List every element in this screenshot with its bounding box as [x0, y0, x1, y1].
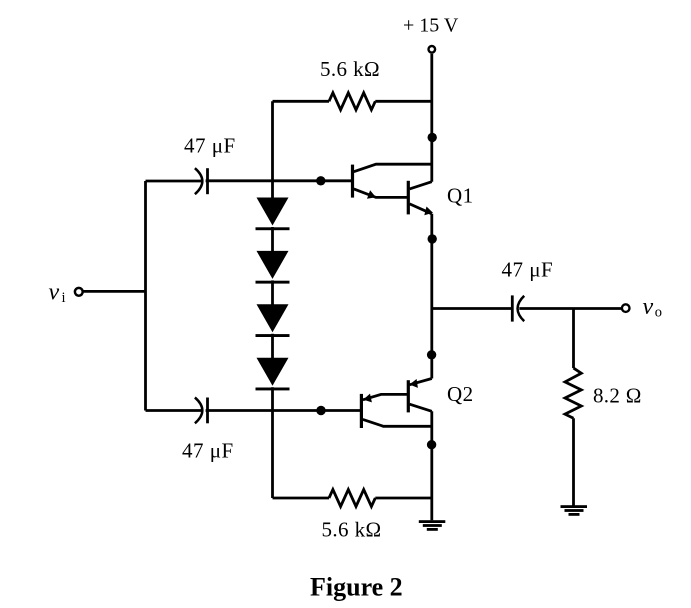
diode D2 cathode bar — [256, 281, 290, 284]
diode D1 cathode bar — [256, 227, 290, 230]
terminal: vo circle — [622, 304, 630, 312]
wire: diode chain vertical (bottom section) — [271, 387, 274, 410]
svg-text:v: v — [643, 294, 654, 320]
terminal: +15V circle — [429, 46, 436, 53]
junction dot: Q1 base wire — [316, 176, 325, 185]
transistor Q2a: emitter lead — [363, 394, 408, 399]
transistor Q2b: base bar — [407, 380, 410, 412]
diode D3 triangle — [257, 304, 289, 332]
svg-text:+ 15 V: + 15 V — [403, 15, 459, 37]
wire: input column vertical — [144, 181, 147, 411]
capacitor C3 47uF output: curved plate — [518, 296, 525, 321]
transistor Q1b: collector lead — [410, 182, 432, 189]
diode D3 cathode bar — [256, 334, 290, 337]
wire: bottom rail Q2 collector to ground — [430, 411, 433, 520]
svg-text:47 μF: 47 μF — [184, 133, 236, 157]
svg-text:o: o — [655, 305, 662, 321]
arrow: Q2b emitter (points into base bar) — [410, 379, 418, 388]
ground G1 (below Q2) bar 1 — [419, 520, 446, 523]
diode D2 triangle — [257, 251, 289, 279]
wire: Q2 base wire from capacitor to base bar — [206, 409, 362, 412]
svg-text:i: i — [62, 290, 66, 306]
ground G1 bar 3 — [427, 528, 438, 531]
junction dot: Q2 base wire — [316, 406, 325, 415]
capacitor C1 47uF top: straight plate — [206, 168, 209, 194]
wire: diode chain vertical (between d3-d4) — [271, 334, 274, 359]
capacitor C3 47uF output: straight plate — [511, 295, 514, 321]
transistor Q2b: emitter lead — [410, 379, 432, 385]
wire: output branch down to 8.2 ohm resistor — [572, 309, 575, 369]
capacitor C2 47uF bottom: curved plate — [195, 398, 202, 424]
diode D1 triangle — [257, 198, 289, 226]
transistor Q1a: emitter lead — [354, 189, 409, 198]
wire: +15V rail down to Q1 collector corner — [430, 54, 433, 182]
ground G2 (below 8.2 ohm) bar 1 — [561, 505, 588, 508]
ground G2 bar 3 — [569, 513, 580, 516]
resistor R3 8.2 Ohm vertical zigzag — [565, 368, 581, 418]
wire: bottom 5.6k resistor right segment to rail — [375, 497, 432, 500]
junction dot: center rail lower — [427, 350, 436, 359]
arrow: Q2a emitter (points into base bar) — [363, 394, 372, 403]
wire: left drop from diode chain to bottom resistor — [271, 411, 274, 499]
transistor Q2b: collector lead — [410, 404, 432, 411]
capacitor C1 47uF top: curved plate — [195, 168, 202, 194]
transistor Q1b: emitter lead — [410, 204, 432, 214]
svg-text:5.6 kΩ: 5.6 kΩ — [320, 57, 380, 81]
wire: top 5.6k resistor right segment to rail — [375, 100, 432, 103]
arrow: Q1a emitter — [367, 190, 376, 199]
wire: Q1 base wire from capacitor to base bar — [206, 179, 353, 182]
wire: output wire to capacitor — [432, 307, 513, 310]
wire: diode chain vertical (top section) — [271, 181, 274, 199]
svg-text:8.2 Ω: 8.2 Ω — [593, 383, 642, 407]
wire: diode chain vertical (between d1-d2) — [271, 227, 274, 252]
svg-text:Q2: Q2 — [447, 382, 473, 406]
ground G1 bar 2 — [423, 524, 442, 527]
junction dot: rail below top resistor — [428, 133, 437, 142]
svg-text:47 μF: 47 μF — [182, 439, 234, 463]
wire: input column to top capacitor — [146, 180, 202, 183]
wire: left drop from top resistor to diode chain — [271, 101, 274, 181]
transistor Q2a: collector lead — [363, 419, 432, 426]
wire: input column to bottom capacitor — [146, 409, 202, 412]
wire: center rail (Q1 emitter to Q2 emitter) — [430, 214, 433, 379]
svg-text:Q1: Q1 — [447, 183, 473, 207]
junction dot: bottom rail — [427, 440, 436, 449]
transistor Q1b: base bar — [407, 181, 410, 215]
arrow: Q1b emitter — [424, 207, 433, 216]
transistor Q2a: base bar — [360, 394, 363, 428]
wire: bottom 5.6k resistor left segment — [273, 497, 330, 500]
wire: top 5.6k resistor left segment — [273, 100, 330, 103]
junction dot: center rail upper — [428, 234, 437, 243]
svg-text:5.6 kΩ: 5.6 kΩ — [322, 517, 382, 541]
wire: diode chain vertical (between d2-d3) — [271, 280, 274, 305]
transistor Q1a: collector lead — [354, 164, 432, 172]
svg-text:v: v — [49, 279, 60, 305]
wire: output capacitor to vo terminal — [519, 307, 621, 310]
wire: 8.2 ohm resistor to ground — [572, 418, 575, 506]
wire: vi terminal to input column — [84, 290, 146, 293]
ground G2 bar 2 — [565, 509, 584, 512]
diode D4 cathode bar — [256, 388, 290, 391]
diode D4 triangle — [257, 358, 289, 386]
resistor R1 5.6 kOhm (top) zigzag — [329, 93, 375, 110]
svg-text:Figure 2: Figure 2 — [310, 573, 403, 602]
svg-text:47 μF: 47 μF — [502, 258, 554, 282]
transistor Q1a: base bar — [351, 165, 354, 198]
terminal: vi circle — [75, 288, 83, 296]
resistor R2 5.6 kOhm (bottom) zigzag — [329, 490, 375, 507]
capacitor C2 47uF bottom: straight plate — [206, 398, 209, 424]
